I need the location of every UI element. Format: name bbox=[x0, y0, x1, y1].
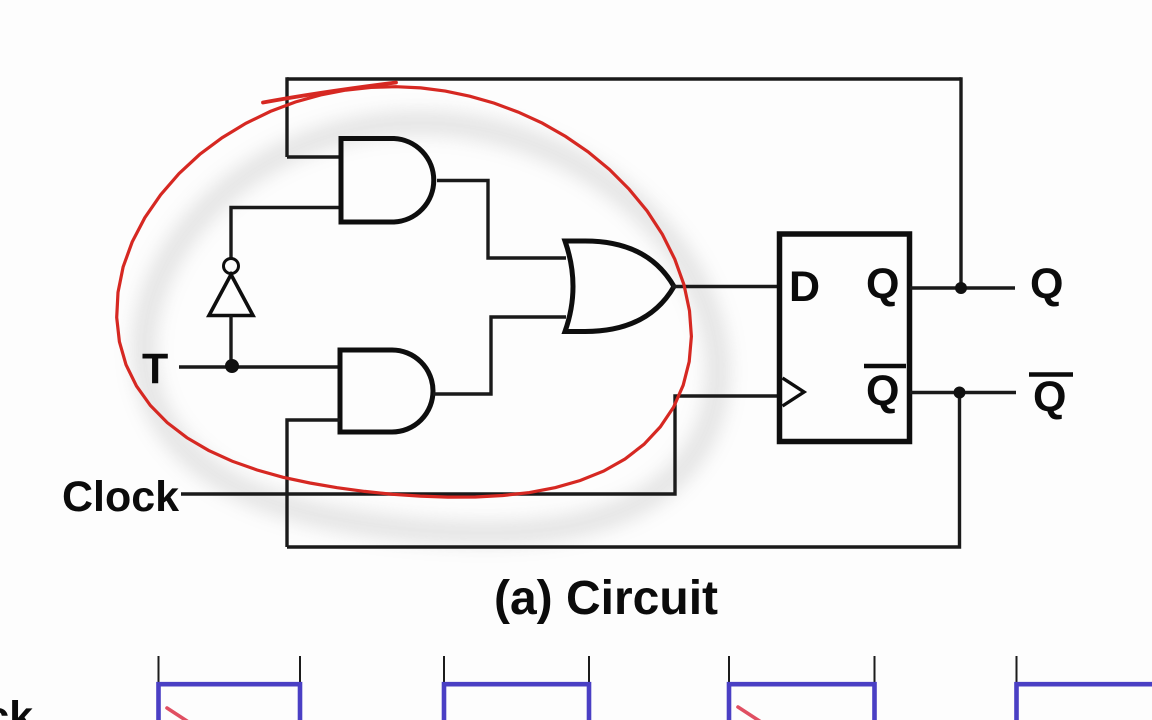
node: Q junction dot bbox=[955, 282, 967, 294]
wire: inverter output up and right into AND1 bbox=[231, 208, 341, 259]
svg-text:Q: Q bbox=[866, 367, 899, 415]
wire: Q output bbox=[910, 286, 1015, 289]
wire: OR output to D input bbox=[672, 285, 780, 288]
red slash in pulse 3 bbox=[738, 707, 761, 720]
tick marks bbox=[159, 656, 1017, 683]
D flip-flop U5 box bbox=[780, 234, 910, 442]
wire: T input to inverter bbox=[229, 316, 232, 367]
wire: top feedback horizontal bbox=[287, 77, 961, 80]
ghost smudge of red ellipse (gray blurred ring) bbox=[144, 123, 719, 533]
svg-text:D: D bbox=[789, 263, 820, 311]
wire: bottom feedback from Qbar bbox=[287, 393, 960, 548]
wire: AND1 top input bbox=[287, 155, 341, 158]
annotation: red tail stroke bbox=[263, 83, 396, 103]
clock waveform (blue) bbox=[159, 684, 1152, 720]
wire: top feedback right vertical to Q bbox=[959, 77, 962, 288]
red slash in pulse 1 bbox=[167, 708, 190, 720]
svg-text:Clock: Clock bbox=[0, 693, 33, 720]
wire: T horizontal into AND2 bbox=[179, 365, 341, 368]
wire: Qbar output bbox=[910, 391, 1016, 394]
OR gate U4 bbox=[565, 241, 674, 332]
wire: top-left vertical into AND1 bbox=[285, 77, 288, 157]
svg-text:(a) Circuit: (a) Circuit bbox=[494, 572, 718, 625]
wire: AND1 output to OR top input bbox=[437, 181, 566, 259]
svg-text:T: T bbox=[142, 345, 168, 393]
AND gate U1 (top) bbox=[341, 139, 434, 223]
node: Qbar junction dot bbox=[954, 387, 966, 399]
wire: AND2 output to OR bottom input bbox=[433, 317, 566, 394]
svg-text:Q: Q bbox=[866, 260, 899, 308]
wire: Qbar feedback into AND2 bottom input bbox=[287, 420, 340, 547]
svg-text:Clock: Clock bbox=[62, 473, 179, 521]
annotation: red ellipse bbox=[117, 87, 692, 497]
inverter U2 bubble bbox=[224, 259, 239, 274]
clock pin triangle bbox=[783, 378, 805, 406]
AND gate U3 (bottom) bbox=[340, 350, 433, 432]
svg-text:Q: Q bbox=[1030, 260, 1063, 308]
wire: Clock horizontal and rise to clock pin bbox=[181, 396, 780, 494]
node: T junction dot bbox=[225, 359, 239, 373]
svg-text:Q: Q bbox=[1033, 373, 1066, 421]
inverter U2 triangle bbox=[209, 275, 253, 316]
